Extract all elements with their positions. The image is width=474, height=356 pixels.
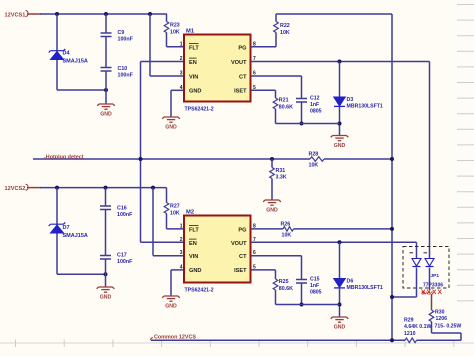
ground GND (cap column 2)	[97, 287, 115, 301]
node rail2-D7 junction	[55, 186, 59, 190]
svg-text:GND: GND	[189, 268, 201, 274]
capacitor C10	[101, 68, 112, 72]
wire CT pin6 to C12	[251, 75, 302, 77]
ground GND (D6)	[331, 317, 349, 331]
svg-text:10K: 10K	[280, 30, 290, 36]
svg-text:D4: D4	[63, 51, 71, 57]
svg-text:100nF: 100nF	[117, 212, 133, 218]
wire VOUT pin7 M1	[251, 61, 430, 63]
svg-text:GND: GND	[100, 112, 112, 118]
svg-text:SMAJ15A: SMAJ15A	[63, 233, 88, 239]
wire D6 cathode to gnd node	[339, 288, 341, 317]
wire rail to R23	[166, 14, 168, 22]
wire hotplug net	[33, 158, 310, 160]
wire VIN2 pin3	[153, 255, 184, 257]
ground GND (cap column)	[97, 104, 115, 118]
svg-text:1: 1	[180, 41, 183, 47]
svg-text:10K: 10K	[282, 233, 292, 239]
svg-text:R29: R29	[404, 318, 414, 324]
svg-text:4: 4	[180, 85, 183, 91]
svg-text:TPS62421-2: TPS62421-2	[185, 288, 214, 294]
resistor R28 (inline)	[310, 157, 324, 162]
svg-text:C9: C9	[118, 30, 125, 36]
diode D3 MBR130LSFT1	[334, 97, 346, 106]
resistor R26 (inline)	[283, 227, 294, 232]
node cap-column junction	[104, 88, 108, 92]
wire R31 to gnd	[271, 179, 273, 201]
svg-text:1210: 1210	[404, 331, 416, 337]
node VOUT2-D6 junction	[338, 240, 342, 244]
svg-text:12VCS2: 12VCS2	[5, 186, 26, 192]
resistor R31	[270, 168, 275, 179]
node C12-ISET junction	[300, 122, 304, 126]
node hotplug-right junction	[390, 157, 394, 161]
svg-text:D6: D6	[347, 279, 354, 285]
svg-text:R27: R27	[170, 204, 180, 210]
wire VIN pin3	[150, 75, 184, 77]
wire VOUT2 down to jumper diode 1	[416, 242, 418, 258]
svg-text:D3: D3	[347, 97, 354, 103]
svg-text:GND: GND	[334, 325, 346, 331]
wire GND pin4 stub M2	[171, 269, 184, 271]
wire 12VCS1 rail	[40, 13, 167, 15]
capacitor C12	[296, 99, 307, 103]
svg-text:4.64K 0.1W: 4.64K 0.1W	[404, 324, 431, 330]
svg-text:JP1: JP1	[431, 273, 440, 279]
svg-text:EN: EN	[189, 60, 197, 66]
svg-text:10K: 10K	[170, 211, 180, 217]
svg-text:100nF: 100nF	[118, 73, 134, 79]
node VOUT-D3 junction	[338, 60, 342, 64]
svg-text:C10: C10	[118, 66, 128, 72]
node hotplug-EN junction	[139, 157, 143, 161]
node PG2-right junction	[390, 227, 394, 231]
wire CT pin6 M2 to C15	[251, 255, 302, 257]
svg-text:GND: GND	[165, 304, 177, 310]
wire GND pin4 stub M1	[171, 89, 184, 91]
svg-text:3.3K: 3.3K	[276, 175, 287, 181]
svg-text:VIN: VIN	[189, 254, 198, 260]
svg-text:R23: R23	[170, 23, 180, 29]
svg-text:-Hotplug detect: -Hotplug detect	[44, 154, 84, 160]
svg-text:1nF: 1nF	[310, 102, 319, 108]
svg-text:10K: 10K	[170, 30, 180, 36]
node ISET net at D3	[338, 122, 342, 126]
capacitor C17	[100, 256, 111, 260]
resistor R29 (inline)	[405, 338, 417, 343]
wire C17 to ground	[105, 259, 107, 287]
wire ISET pin5 to R21	[251, 89, 276, 91]
wire D3 cathode to gnd node	[339, 106, 341, 135]
resistor R27	[164, 203, 169, 214]
svg-text:C16: C16	[117, 206, 127, 212]
wire JP1-A cathode down	[416, 268, 418, 298]
node cap-column-2 junction	[104, 272, 108, 276]
wire ISET pin5 M2 to R25	[251, 269, 276, 271]
diode JP1-A (open)	[412, 259, 421, 267]
wire PG pin8 to R22	[251, 46, 277, 48]
svg-text:M2: M2	[186, 210, 194, 216]
svg-text:3: 3	[180, 71, 183, 77]
resistor R23	[164, 22, 169, 33]
wire D3 anode	[339, 62, 341, 98]
svg-text:ISET: ISET	[234, 268, 247, 274]
wire capacitor column	[105, 14, 107, 33]
svg-text:0805: 0805	[310, 109, 322, 115]
wire JP1-A to x392 net	[392, 296, 417, 298]
wire R25 bottom rail	[275, 290, 277, 305]
svg-text:3: 3	[180, 250, 183, 256]
wire PG pin8 M2 to R26	[251, 228, 284, 230]
svg-text:PG: PG	[238, 227, 246, 233]
svg-text:VOUT: VOUT	[231, 60, 247, 66]
capacitor C16	[100, 206, 111, 210]
ground GND (M1 pin4)	[162, 117, 180, 131]
node rail1-D4 junction	[55, 12, 59, 16]
svg-text:12VCS1: 12VCS1	[5, 13, 26, 19]
wire C15 bottom	[301, 283, 303, 305]
wire R27 to pin1 M2	[166, 214, 168, 229]
wire 5VCS node to R30	[431, 294, 433, 310]
svg-text:R25: R25	[279, 279, 289, 285]
wire right vertical net (x392)	[391, 14, 393, 340]
node common-x392 junction	[390, 338, 394, 342]
node x392-JP1 junction	[390, 295, 394, 299]
resistor R30	[429, 310, 434, 322]
svg-text:TPS62421-2: TPS62421-2	[185, 107, 214, 113]
svg-text:FLT: FLT	[189, 45, 199, 51]
wire D6 anode	[339, 242, 341, 278]
svg-text:R26: R26	[281, 221, 291, 227]
svg-text:CT: CT	[239, 74, 247, 80]
node rail2-C16 junction	[104, 186, 108, 190]
resistor R21	[273, 98, 278, 109]
ground GND (M2 pin4)	[162, 296, 180, 310]
wire EN pin2 to hotplug	[141, 61, 185, 63]
svg-text:10K: 10K	[309, 163, 319, 169]
wire VIN2 feed vertical	[152, 188, 154, 256]
svg-text:GND: GND	[189, 89, 201, 95]
svg-text:VOUT: VOUT	[231, 241, 247, 247]
ground GND (D3)	[331, 136, 349, 150]
wire C16 to C17	[105, 210, 107, 256]
svg-text:ISET: ISET	[234, 89, 247, 95]
svg-text:R21: R21	[279, 98, 289, 104]
svg-text:R28: R28	[309, 152, 319, 158]
svg-text:R31: R31	[276, 168, 286, 174]
svg-text:SMAJ15A: SMAJ15A	[63, 59, 88, 65]
svg-text:D7: D7	[63, 225, 70, 231]
node hotplug-R31 junction	[270, 157, 274, 161]
svg-text:R30: R30	[435, 310, 445, 316]
wire R31 top	[271, 159, 273, 168]
pin mark JP1-1	[410, 252, 414, 254]
capacitor C9	[101, 33, 112, 37]
wire D7 branch vertical	[56, 188, 58, 275]
node rail1-VIN junction	[148, 12, 152, 16]
diode D4 (TVS)	[49, 49, 66, 60]
svg-text:C17: C17	[117, 253, 127, 259]
svg-text:2: 2	[180, 237, 183, 243]
wire R21 bottom rail	[275, 109, 277, 124]
connector JP1 dashed outline	[403, 247, 449, 289]
svg-text:EN: EN	[189, 241, 197, 247]
wire D4 branch vertical	[56, 14, 58, 90]
svg-text:VIN: VIN	[189, 74, 198, 80]
svg-text:1206: 1206	[436, 316, 448, 322]
wire rail2 to R27	[166, 188, 168, 203]
diode D7 (TVS)	[49, 222, 66, 233]
svg-text:100nF: 100nF	[117, 259, 133, 265]
svg-text:MBR130LSFT1: MBR130LSFT1	[347, 285, 383, 291]
resistor R25	[273, 279, 278, 290]
svg-text:MBR130LSFT1: MBR130LSFT1	[347, 104, 383, 110]
ground GND (R31)	[263, 200, 281, 214]
svg-text:GND: GND	[266, 208, 278, 214]
wire VOUT M1 down to jumper diode	[429, 62, 431, 259]
svg-text:R22: R22	[280, 23, 290, 29]
svg-text:GND: GND	[100, 295, 112, 301]
wire common 12VCS net	[151, 339, 405, 341]
wire R23 to pin1	[166, 33, 168, 47]
svg-text:0805: 0805	[310, 290, 322, 296]
svg-text:PG: PG	[238, 45, 246, 51]
op-amp/regulator U-M2 TPS62421 body	[184, 216, 251, 283]
svg-text:C12: C12	[310, 96, 320, 102]
svg-text:M1: M1	[186, 29, 195, 35]
wire 12VCS2 rail	[40, 187, 167, 189]
node rail1-C9 junction	[104, 12, 108, 16]
svg-text:FLT: FLT	[189, 227, 199, 233]
svg-text:C15: C15	[310, 277, 320, 283]
wire C10 to ground	[105, 71, 107, 104]
svg-text:2: 2	[180, 56, 183, 62]
svg-text:Common 12VCS: Common 12VCS	[154, 334, 196, 340]
capacitor C15	[296, 280, 307, 284]
op-amp/regulator U-M1 TPS62421 body	[184, 35, 251, 102]
svg-text:80.6K: 80.6K	[279, 286, 293, 292]
diode JP1-B (open)	[425, 259, 434, 267]
svg-text:4: 4	[180, 264, 183, 270]
node rail2-VIN2 junction	[151, 186, 155, 190]
svg-text:80.6K: 80.6K	[279, 105, 293, 111]
svg-text:100nF: 100nF	[118, 37, 134, 43]
svg-text:1: 1	[180, 223, 183, 229]
wire R22 top rail to right	[275, 14, 277, 22]
svg-text:GND: GND	[334, 143, 346, 149]
svg-text:1nF: 1nF	[310, 283, 319, 289]
node C15-ISET2 junction	[300, 303, 304, 307]
pin mark JP1-2	[424, 252, 428, 254]
svg-text:715- 0.25W: 715- 0.25W	[435, 324, 462, 330]
wire VIN feed vertical	[149, 14, 151, 76]
node ISET2 net at D6	[338, 303, 342, 307]
wire EN pin2 M2	[141, 241, 185, 243]
resistor R22	[274, 22, 279, 33]
wire C12 bottom	[301, 102, 303, 124]
wire D7 bottom to cap column	[57, 273, 106, 275]
wire D4 bottom to cap column	[57, 89, 106, 91]
wire capacitor column 2	[105, 188, 107, 206]
wire C9 to C10	[105, 37, 107, 68]
diode D6 MBR130LSFT1	[334, 279, 346, 288]
svg-text:CT: CT	[239, 254, 247, 260]
wire R30 bottom to common net	[431, 322, 433, 334]
svg-text:GND: GND	[165, 125, 177, 131]
wire VOUT pin7 M2	[251, 241, 417, 243]
svg-text:77P3306: 77P3306	[423, 283, 443, 289]
wire JP1-B cathode down	[429, 268, 431, 291]
